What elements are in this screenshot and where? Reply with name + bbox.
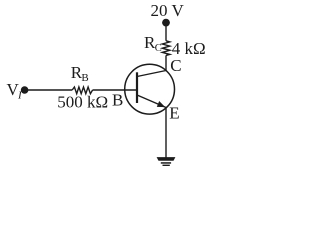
label C (collector) (170, 56, 181, 75)
value label 4 kOhm (172, 39, 206, 58)
ground symbol bar 3 (163, 165, 170, 166)
transistor Q1 emitter stroke (137, 95, 166, 108)
ground symbol bar 1 (157, 157, 176, 161)
svg-text:20 V: 20 V (151, 1, 185, 20)
label RB (71, 63, 89, 84)
label B (base) (112, 91, 123, 110)
value label 500 kOhm (57, 93, 108, 112)
wire: emitter to ground (165, 108, 167, 158)
node dot: Vi input terminal (21, 86, 29, 94)
transistor Q1 collector stroke (137, 71, 166, 77)
svg-text:500 kΩ: 500 kΩ (57, 93, 108, 112)
wire: resistor RB right to base bar (93, 89, 137, 91)
transistor Q1 circle (125, 64, 175, 114)
transistor Q1 base bar (136, 72, 138, 103)
resistor RC 4 kOhm (vertical zigzag) (162, 41, 170, 56)
node dot: 20 V terminal (162, 19, 170, 27)
ground symbol bar 2 (161, 162, 171, 164)
svg-text:B: B (112, 91, 123, 110)
node: 20 V supply label (151, 1, 185, 20)
label E (emitter) (169, 104, 179, 123)
svg-text:C: C (170, 56, 181, 75)
wire: supply dot to resistor RC top (165, 23, 167, 41)
resistor RB 500 kOhm (horizontal zigzag) (72, 87, 92, 94)
wire: Vi dot to resistor RB left (25, 89, 73, 91)
svg-text:C: C (155, 43, 162, 54)
transistor Q1 emitter arrowhead (157, 101, 165, 107)
svg-text:B: B (81, 72, 88, 84)
label Vi (7, 80, 24, 101)
wire: resistor RC bottom to collector (165, 55, 167, 70)
svg-text:E: E (169, 104, 179, 123)
label RC (144, 33, 162, 54)
